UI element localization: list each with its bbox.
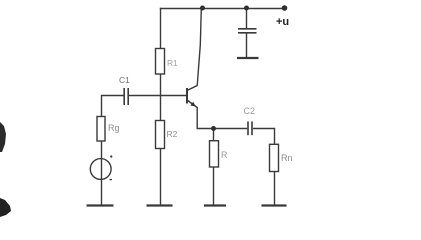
transistor Q1 base bar	[186, 88, 188, 104]
label C2	[244, 106, 256, 116]
ground under source	[87, 204, 114, 206]
source circle	[90, 159, 111, 180]
ground under filter cap	[237, 57, 259, 59]
transistor Q1 emitter arrow	[190, 102, 195, 107]
wire R1 branch top	[160, 8, 162, 49]
wire C1 to base	[129, 95, 187, 97]
resistor Rg	[97, 117, 105, 142]
scan artifact left edge	[0, 122, 6, 152]
wire R1 bottom to base node	[160, 74, 162, 96]
capacitor C2	[248, 121, 252, 135]
wire top supply rail	[160, 8, 285, 10]
node emitter junction	[211, 126, 216, 131]
label R	[221, 150, 228, 160]
node supply end	[282, 5, 288, 11]
wire R2 to ground	[160, 149, 162, 205]
resistor R2	[156, 121, 165, 149]
label +u	[276, 16, 289, 28]
ground under Rn	[262, 204, 287, 206]
resistor R1	[156, 49, 165, 75]
source polarity minus	[110, 179, 112, 180]
capacitor C3 filter	[238, 29, 257, 33]
wire C2 to Rn corner	[253, 129, 275, 145]
source polarity plus	[110, 155, 112, 157]
label Rg	[108, 123, 120, 133]
wire Rg to source	[101, 141, 103, 205]
ground under R	[204, 204, 226, 206]
transistor Q1 collector	[187, 9, 201, 91]
transistor Q1 emitter	[187, 100, 197, 129]
label R2	[167, 129, 178, 139]
node filter cap junction	[244, 6, 249, 11]
wire emitter node to R	[213, 129, 215, 141]
scan artifact bottom left	[0, 198, 11, 217]
resistor R	[210, 141, 219, 167]
resistor Rn	[270, 144, 279, 171]
wire emitter node to C2	[197, 128, 248, 130]
wire Rn to ground	[274, 172, 276, 205]
label R1	[167, 58, 178, 68]
ground under R2	[147, 204, 173, 206]
label C1	[119, 75, 130, 85]
label Rn	[281, 153, 293, 163]
wire filter cap to ground	[246, 34, 248, 58]
wire input down to Rg	[101, 95, 103, 117]
node collector junction	[200, 6, 205, 11]
wire base node to R2	[160, 96, 162, 121]
capacitor C1	[124, 88, 128, 105]
wire R to ground	[213, 167, 215, 205]
wire supply dot to filter cap	[246, 8, 248, 28]
wire input corner to C1	[102, 95, 124, 97]
